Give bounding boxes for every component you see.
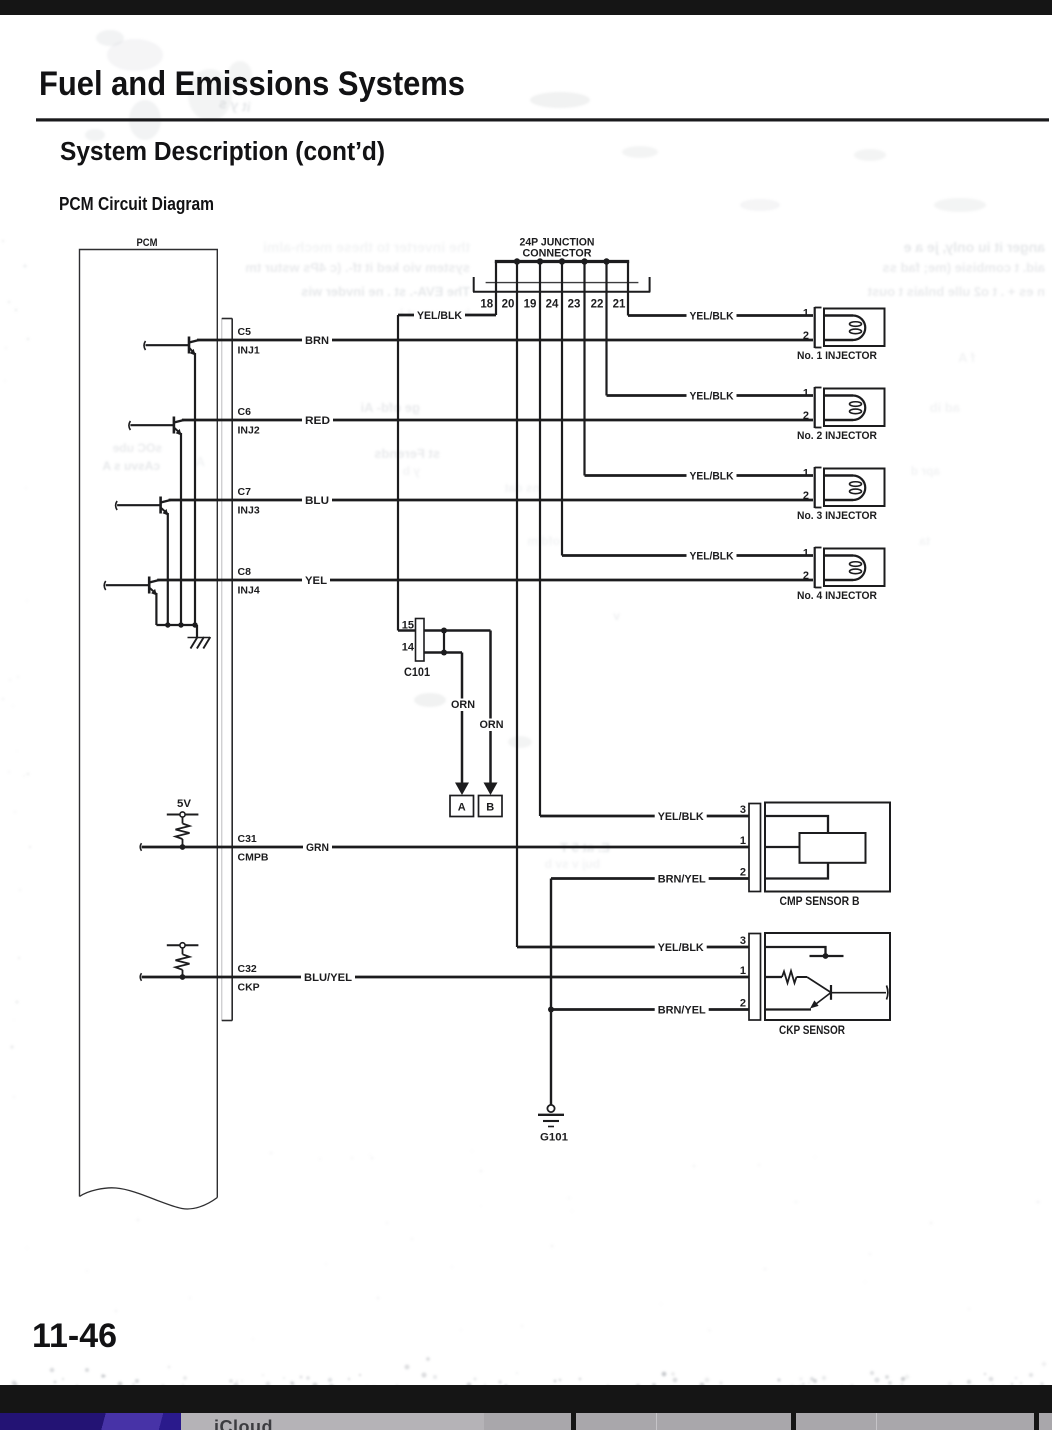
svg-text:INJ2: INJ2 [238, 425, 260, 437]
svg-text:G101: G101 [540, 1132, 568, 1144]
svg-text:BLU: BLU [305, 495, 329, 507]
svg-text:aid. t combisie (me; fad ss: aid. t combisie (me; fad ss [882, 260, 1045, 275]
svg-text:YEL: YEL [305, 575, 327, 587]
svg-text:apr d: apr d [911, 464, 940, 478]
svg-text:2: 2 [740, 998, 746, 1010]
svg-text:YEL/BLK: YEL/BLK [690, 551, 734, 563]
svg-text:buj v sv b: buj v sv b [545, 857, 600, 871]
svg-text:No. 3 INJECTOR: No. 3 INJECTOR [797, 510, 877, 522]
svg-text:15: 15 [402, 620, 414, 632]
svg-text:ORN: ORN [480, 719, 504, 731]
svg-text:2: 2 [740, 867, 746, 879]
svg-text:CKP SENSOR: CKP SENSOR [779, 1025, 846, 1037]
svg-text:YEL/BLK: YEL/BLK [690, 391, 734, 403]
svg-text:1: 1 [803, 467, 809, 479]
svg-text:PCM: PCM [137, 237, 158, 249]
svg-text:2: 2 [803, 490, 809, 502]
svg-text:YEL/BLK: YEL/BLK [658, 811, 704, 823]
svg-text:No. 4 INJECTOR: No. 4 INJECTOR [797, 590, 877, 602]
svg-text:BRN: BRN [305, 335, 329, 347]
svg-text:ORN: ORN [451, 699, 475, 711]
svg-text:anger it iu only, je a e: anger it iu only, je a e [903, 239, 1045, 255]
svg-text:RED: RED [305, 415, 330, 427]
svg-text:BLU/YEL: BLU/YEL [304, 972, 352, 984]
svg-text:v: v [613, 609, 620, 623]
svg-text:YEL/BLK: YEL/BLK [690, 311, 734, 323]
svg-text:INJ4: INJ4 [238, 585, 260, 597]
svg-text:1: 1 [803, 387, 809, 399]
svg-text:C8: C8 [238, 566, 252, 578]
svg-text:PCM Circuit Diagram: PCM Circuit Diagram [59, 193, 214, 214]
svg-text:2: 2 [803, 330, 809, 342]
svg-text:ge ofd- Ai: ge ofd- Ai [361, 400, 420, 415]
svg-text:1: 1 [803, 307, 809, 319]
svg-text:System Description (cont’d): System Description (cont’d) [60, 138, 385, 166]
svg-text:3: 3 [740, 935, 746, 947]
svg-text:CMPB: CMPB [238, 852, 269, 864]
svg-text:ns dat: ns dat [505, 481, 540, 495]
svg-text:1: 1 [803, 547, 809, 559]
svg-text:No. 2 INJECTOR: No. 2 INJECTOR [797, 430, 877, 442]
svg-text:24: 24 [546, 299, 559, 311]
svg-text:INJ3: INJ3 [238, 505, 260, 517]
svg-text:The EVA-. st . ne invder wis: The EVA-. st . ne invder wis [301, 284, 470, 299]
svg-text:18: 18 [480, 299, 493, 311]
svg-text:11-46: 11-46 [32, 1317, 117, 1355]
svg-text:Fuel and Emissions Systems: Fuel and Emissions Systems [39, 65, 465, 103]
svg-text:21: 21 [613, 299, 626, 311]
svg-text:YEL/BLK: YEL/BLK [690, 471, 734, 483]
svg-text:YEL/BLK: YEL/BLK [417, 310, 462, 322]
svg-text:YEL/BLK: YEL/BLK [658, 942, 704, 954]
svg-text:INJ1: INJ1 [238, 345, 260, 357]
svg-text:A: A [458, 802, 466, 814]
svg-text:sOC ube: sOC ube [112, 441, 162, 455]
svg-text:2: 2 [803, 570, 809, 582]
svg-text:CMP SENSOR B: CMP SENSOR B [780, 896, 860, 908]
svg-text:2: 2 [803, 410, 809, 422]
svg-text:BRN/YEL: BRN/YEL [658, 1005, 706, 1017]
svg-text:C101: C101 [404, 667, 431, 679]
svg-text:23: 23 [568, 299, 581, 311]
svg-text:1: 1 [740, 835, 746, 847]
svg-text:C5: C5 [238, 326, 252, 338]
svg-text:14: 14 [402, 642, 415, 654]
svg-text:cAsvu s A: cAsvu s A [102, 459, 160, 473]
svg-text:the inverter to these mech-alm: the inverter to these mech-almi [263, 239, 470, 255]
svg-text:CONNECTOR: CONNECTOR [523, 248, 592, 260]
svg-text:BRN/YEL: BRN/YEL [658, 874, 706, 886]
svg-text:19: 19 [524, 299, 537, 311]
svg-text:B: B [486, 802, 494, 814]
svg-text:22: 22 [591, 299, 604, 311]
svg-text:GRN: GRN [306, 842, 329, 854]
svg-text:3: 3 [740, 804, 746, 816]
svg-text:C32: C32 [238, 963, 257, 975]
svg-text:20: 20 [502, 299, 515, 311]
svg-text:n es + . t o2 ulle bnlais t ou: n es + . t o2 ulle bnlais t oust [867, 284, 1045, 299]
svg-text:f A: f A [958, 350, 975, 365]
svg-text:system vio ked it tf-. (c 4Ps: system vio ked it tf-. (c 4Ps wstur tm [245, 260, 470, 275]
svg-text:CKP: CKP [238, 982, 260, 994]
svg-text:C7: C7 [238, 486, 252, 498]
svg-text:5V: 5V [177, 798, 192, 810]
svg-text:ofd m: ofd m [527, 534, 560, 548]
svg-text:No. 1 INJECTOR: No. 1 INJECTOR [797, 350, 877, 362]
svg-text:st Ferends: st Ferends [374, 446, 440, 461]
svg-text:C31: C31 [238, 833, 257, 845]
svg-text:ad ib: ad ib [930, 400, 960, 415]
svg-text:C6: C6 [238, 406, 252, 418]
svg-text:1: 1 [740, 965, 746, 977]
svg-text:A: A [195, 454, 205, 469]
svg-text:y b: y b [403, 464, 420, 478]
svg-text:ta: ta [919, 534, 930, 548]
